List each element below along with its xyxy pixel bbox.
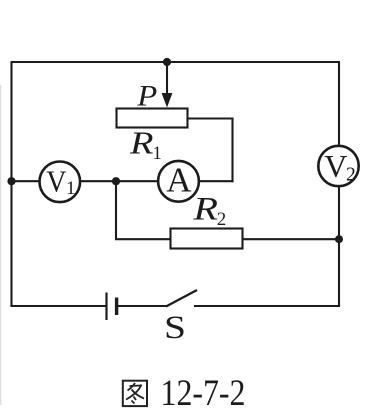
svg-text:R: R: [129, 125, 154, 161]
svg-text:V: V: [46, 163, 67, 198]
svg-text:1: 1: [153, 144, 162, 164]
svg-text:A: A: [166, 161, 192, 200]
svg-text:2: 2: [346, 165, 356, 186]
svg-text:2: 2: [217, 209, 227, 230]
svg-text:S: S: [164, 310, 186, 346]
svg-text:R: R: [192, 192, 218, 228]
svg-text:1: 1: [66, 178, 76, 199]
svg-text:P: P: [136, 80, 157, 113]
svg-text:12-7-2: 12-7-2: [161, 373, 246, 414]
svg-text:V: V: [324, 148, 347, 184]
